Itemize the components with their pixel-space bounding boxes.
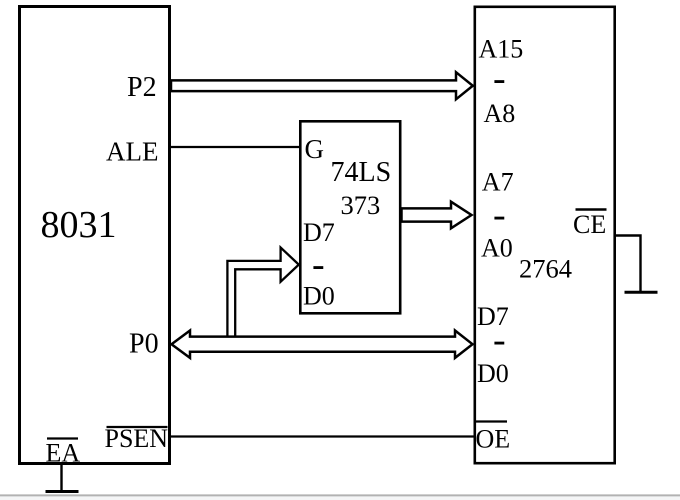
svg-text:P0: P0 xyxy=(129,329,159,360)
svg-text:OE: OE xyxy=(476,425,511,454)
svg-text:-: - xyxy=(493,58,506,100)
svg-text:-: - xyxy=(493,319,506,361)
svg-text:CE: CE xyxy=(573,210,606,239)
svg-text:P2: P2 xyxy=(127,72,157,103)
svg-text:-: - xyxy=(312,244,325,286)
svg-text:D0: D0 xyxy=(303,282,335,311)
svg-text:EA: EA xyxy=(46,439,81,468)
svg-text:A7: A7 xyxy=(482,168,514,197)
svg-text:74LS: 74LS xyxy=(331,157,392,188)
svg-text:8031: 8031 xyxy=(41,204,117,246)
svg-text:G: G xyxy=(305,134,325,164)
svg-text:PSEN: PSEN xyxy=(105,424,169,453)
svg-text:A8: A8 xyxy=(484,99,516,128)
svg-text:ALE: ALE xyxy=(106,137,158,167)
svg-text:D0: D0 xyxy=(477,359,509,388)
svg-text:2764: 2764 xyxy=(519,254,572,284)
svg-text:373: 373 xyxy=(341,190,381,220)
svg-text:-: - xyxy=(493,194,506,236)
svg-text:A0: A0 xyxy=(481,234,513,263)
